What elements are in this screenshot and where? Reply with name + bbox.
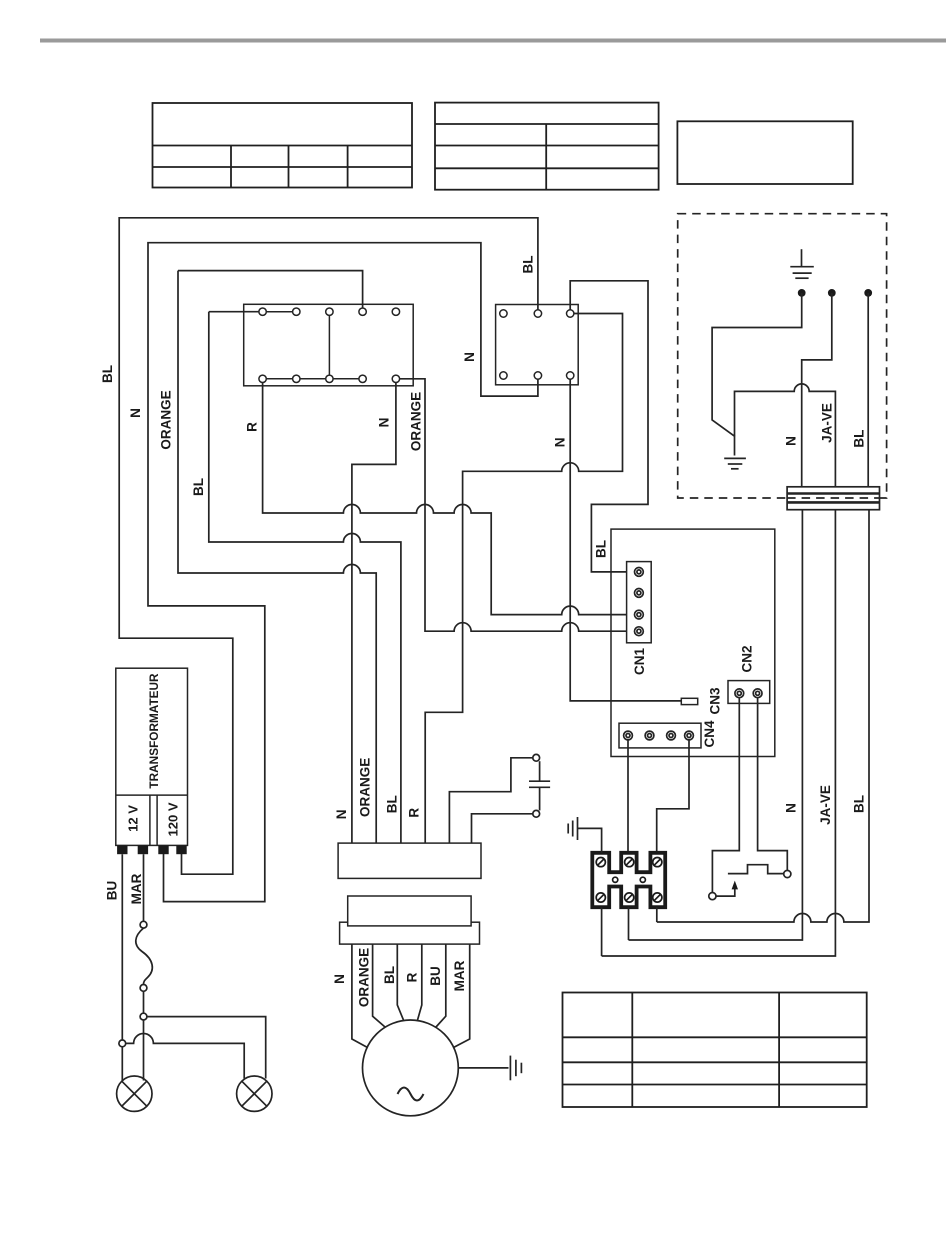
svg-text:ORANGE: ORANGE [409,392,424,451]
wire N: transformer 120V left terminal up and across to relay2 pin 2 bottom [148,243,538,902]
wire N motor: relay1 pin5 bottom down, step left, down to motor connector [352,383,396,844]
transformer terminal lug 4 [176,845,186,854]
svg-text:BL: BL [594,540,609,558]
svg-text:JA-VE: JA-VE [820,403,835,443]
wire dot3 BL conductor [867,293,869,487]
wire terminal bottom1 to JA-VE [601,907,603,956]
relay1 top pins [259,308,266,315]
wire MAR node to lamp2 [147,1017,266,1079]
svg-text:N: N [552,438,567,448]
header rule [40,39,946,43]
legend table 2 (top middle) [435,103,659,190]
terminal screw bottom 1 [596,893,605,902]
supply terminal dot 3 [864,289,872,297]
svg-text:N: N [332,974,347,984]
CN2 pin 1 [735,689,744,698]
strip center hole 2 [640,877,645,882]
wire N below block [629,510,803,940]
lamp 2 [237,1076,272,1111]
terminal screw top 3 [653,858,662,867]
control board outline [611,529,775,756]
motor lead MAR [454,944,470,1047]
capacitor C1 top node [533,754,540,761]
wire CN4 pin4 to terminal block [657,740,689,853]
lamp 1 [117,1076,152,1111]
CN4 pin 2 [645,731,654,740]
legend table 2 column divider [545,124,547,190]
svg-text:ORANGE: ORANGE [358,758,373,817]
svg-text:TRANSFORMATEUR: TRANSFORMATEUR [147,673,161,789]
relay2 top pins [500,310,507,317]
svg-text:N: N [462,352,477,362]
relay block 1 [244,304,414,386]
door switch contact circle right [784,870,791,877]
door switch actuator link [716,889,735,896]
transformer terminal lug 2 [138,845,148,854]
door switch contact circle left [709,893,716,900]
wire terminal bottom2 to N [628,907,630,940]
motor plug upper part [348,896,471,926]
svg-text:BU: BU [428,966,443,986]
svg-text:N: N [334,810,349,820]
legend table 1 (top left) [153,103,413,188]
svg-text:BL: BL [382,966,397,984]
legend table 1 column dividers [230,146,232,188]
CN1 pin 4 [635,627,644,636]
svg-text:12 V: 12 V [126,805,141,832]
inline connector node (MAR upper) [140,921,147,928]
wire MAR node to lamp1 [143,1020,145,1081]
wire N CN3: relay2 pin3 bottom down to CN3 [570,379,681,701]
wire MAR between nodes [143,991,145,1013]
junction node BU [119,1040,126,1047]
connector CN3 (jumper tab) [681,698,697,704]
door switch actuator arrow [732,881,738,890]
transformer core double lines [149,795,151,845]
motor lead R [418,944,422,1020]
svg-text:BL: BL [852,795,867,813]
wire dot1 to chassis junction [712,293,802,456]
ground G4 (motor) [510,1056,521,1081]
svg-text:CN3: CN3 [708,687,723,714]
supply terminal dot 1 [798,289,806,297]
svg-text:BL: BL [521,256,536,274]
door switch moving bar [728,865,784,874]
connector CN1 body [627,562,652,643]
svg-text:BL: BL [852,430,867,448]
wire BU node to lamp2, hop over MAR [126,1034,245,1079]
wire CN4 pin1 to terminal block [627,740,629,853]
flexible link S-curve [136,928,153,984]
wire ORANGE top entry into relay1 pin4 [178,271,363,309]
terminal strip (thick H block) [592,853,665,907]
legend table 1 mid row line [153,166,413,168]
svg-text:R: R [407,808,422,818]
revision table (bottom right) [563,993,867,1108]
junction node MAR [140,1013,147,1020]
CN1 pin 2 [635,589,644,598]
svg-text:BL: BL [191,478,206,496]
revision table column dividers [631,993,633,1108]
svg-text:ORANGE: ORANGE [159,390,174,449]
wire BU from 12V terminal 1 [121,854,123,1040]
connector CN2 body [728,681,770,704]
terminal screw bottom 3 [653,893,662,902]
motor ground lead [458,1067,508,1069]
dashed enclosure (supply box) [678,214,887,498]
svg-text:ORANGE: ORANGE [357,948,372,1007]
motor AC tilde [398,1088,424,1101]
svg-text:N: N [128,408,143,418]
wire JA-VE: block up, hop over N, to chassis junction [735,384,836,487]
relay2 bottom pins [500,372,507,379]
supply terminal dot 2 [828,289,836,297]
wire BL inner: vertical to motor connector, hop over N wire [209,312,401,843]
motor plug lower wide part [340,922,480,944]
svg-text:N: N [784,436,799,446]
svg-text:CN2: CN2 [740,645,755,672]
CN1 pin 3 [635,610,644,619]
CN4 pin 3 [667,731,676,740]
legend table 1 header line [153,145,413,147]
wire terminal bottom3 to BL [656,907,658,922]
relay1 link pin1-pin2 top [263,311,297,313]
CN1 pin 1 [635,568,644,577]
wire ORANGE right: relay1 pin5 bottom to CN1 pin4, hops over 2 verticals [400,379,635,631]
wire R: relay1 pin1 bottom to CN1 pin3, hops over 3 verticals [263,383,635,615]
svg-text:BL: BL [385,795,400,813]
motor lead BL [397,944,403,1020]
relay1 bottom bus pins 1-4 [263,378,363,380]
transformer terminal lug 3 [158,845,168,854]
transformer terminal lug 1 [117,845,127,854]
wire MAR from 12V terminal 2 [143,854,145,921]
wire CN2 pin1 to door switch [712,698,739,893]
strip center hole 1 [613,877,618,882]
transformer T1 body [116,668,188,845]
wire dot2 to N conductor [802,293,832,487]
motor lead N [352,944,368,1047]
capacitor C1 bottom node [533,810,540,817]
relay block 2 [496,305,579,385]
wire CN2 pin2 to door switch [758,698,788,871]
revision table row lines [563,1036,867,1038]
terminal screw top 1 [596,858,605,867]
connector CN4 body [619,723,701,748]
svg-text:BL: BL [100,365,115,383]
capacitor C1 [529,761,550,810]
title box (top right) [677,121,852,184]
svg-text:120 V: 120 V [166,802,181,836]
svg-text:CN1: CN1 [632,648,647,675]
motor lead ORANGE [373,944,385,1027]
wire BU node to lamp1 [121,1047,123,1081]
wire BL outer: transformer 120V right terminal up and across top to relay2 pin 2 top [119,218,538,874]
wire JA-VE below block [602,510,836,956]
legend table 2 row lines [435,123,659,125]
ground G1 (top of dashed box) [790,249,814,278]
capacitor C1 bottom lead [472,814,533,843]
motor M1 [363,1020,459,1116]
svg-text:N: N [784,803,799,813]
motor harness connector upper [338,843,481,878]
cable pass-through block [787,487,879,510]
terminal screw bottom 2 [625,893,634,902]
capacitor C1 top lead [449,758,532,843]
transformer winding divider [116,794,188,796]
inline connector node (MAR mid) [140,985,147,992]
wire motor R: relay2 pin3 side to motor connector, hop over N [425,314,622,844]
svg-text:MAR: MAR [129,873,144,904]
svg-text:MAR: MAR [452,960,467,991]
CN2 pin 2 [753,689,762,698]
svg-text:R: R [405,972,420,982]
ground G3 (left of terminal strip) [568,817,577,840]
terminal screw top 2 [625,858,634,867]
svg-text:BU: BU [105,881,120,901]
wire BL below block, hops over JA-VE and N [657,510,869,922]
wire BL inner entry into relay1 pin1 [209,311,259,313]
relay1 link pin3 top to pin3 bottom [328,312,330,379]
svg-text:N: N [377,418,392,428]
CN4 pin 1 [624,731,633,740]
svg-text:CN4: CN4 [702,720,717,747]
svg-text:JA-VE: JA-VE [818,785,833,825]
ground G2 (inside dashed box) [724,458,746,468]
wire G3 to terminal strip top 1 [578,828,602,852]
relay1 bottom pins [259,375,266,382]
wire BL CN1: relay2 pin3 top up, right, down, to CN1 pin1 [570,281,648,572]
svg-text:R: R [245,422,260,432]
wire ORANGE left: down-left vertical to motor connector, hop over N wire [178,271,376,844]
CN4 pin 4 [685,731,694,740]
motor lead BU [436,944,446,1027]
